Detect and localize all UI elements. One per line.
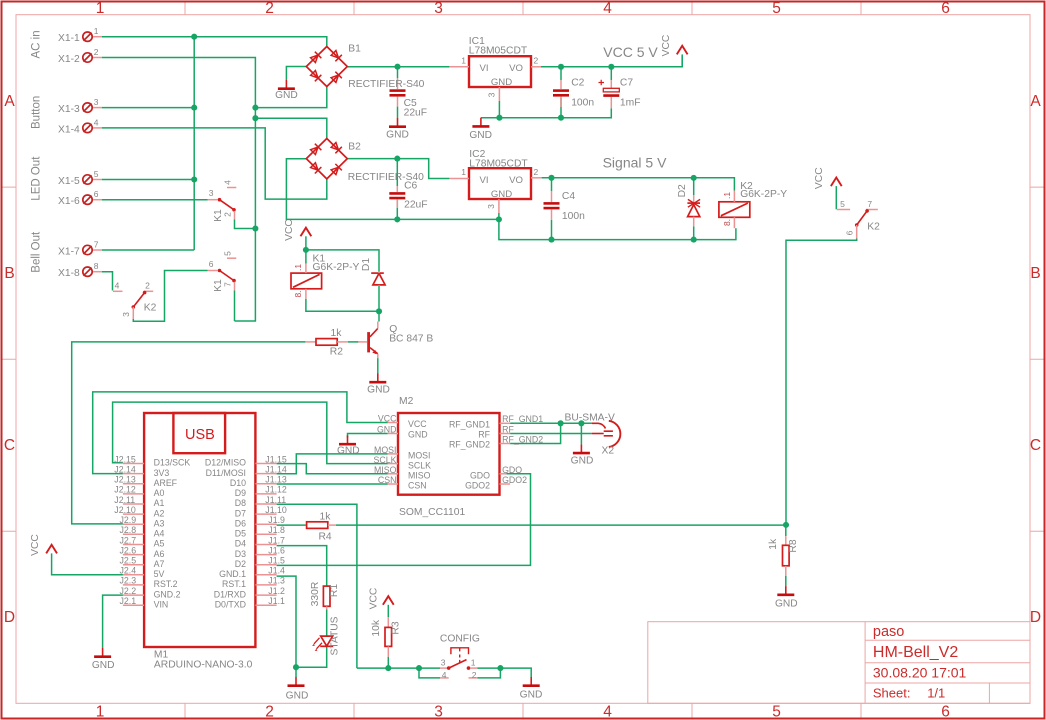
wire J1.13 CSN to module: [277, 483, 388, 485]
svg-text:GND: GND: [337, 446, 360, 457]
wire X1-2 down (net AC2): [102, 58, 255, 322]
svg-text:1: 1: [96, 0, 105, 17]
node C2 bottom: [558, 115, 564, 121]
ground B1 left: [278, 80, 295, 89]
svg-text:D12/MISO: D12/MISO: [205, 458, 246, 468]
node X1-1/AC1: [191, 34, 197, 40]
frame column ticks bottom: [185, 703, 861, 717]
wire module GND to GND symbol: [348, 434, 388, 438]
svg-text:RF_GND1: RF_GND1: [449, 420, 490, 430]
node LED/GND.1: [293, 664, 299, 670]
wire R4 line to R8 junction: [336, 524, 786, 526]
svg-text:VCC: VCC: [369, 587, 380, 609]
node VCC/K1 coil: [303, 247, 309, 253]
vcc arrow at R3: [383, 596, 394, 605]
wire B2 left to signal gnd rail: [286, 159, 499, 220]
node AC2/K1 pin2: [252, 225, 258, 231]
svg-text:GND: GND: [367, 385, 390, 396]
wire B1 right to IC1 VI: [347, 66, 449, 68]
svg-text:J1.5: J1.5: [268, 556, 285, 566]
svg-text:D0/TXD: D0/TXD: [215, 599, 246, 609]
connector X1-1: [83, 32, 92, 41]
svg-text:GDO2: GDO2: [502, 475, 527, 485]
svg-text:J1.7: J1.7: [268, 535, 285, 545]
svg-text:GND.2: GND.2: [154, 589, 181, 599]
svg-text:X1-7: X1-7: [58, 247, 80, 258]
wire K1 contact pin2 to AC2 vertical: [235, 220, 256, 229]
svg-text:LED Out: LED Out: [31, 156, 43, 201]
wire D2 top drop: [693, 178, 695, 195]
frame row ticks left: [3, 187, 17, 531]
svg-text:D2: D2: [677, 184, 688, 197]
wire K2 contact pivot to long vertical: [786, 239, 857, 525]
title block: [648, 622, 1030, 704]
svg-text:100n: 100n: [562, 211, 585, 222]
wire CONFIG bypass left pins 3-4: [419, 668, 440, 678]
ground J2.2: [94, 648, 111, 657]
svg-text:7: 7: [223, 282, 233, 287]
svg-text:2: 2: [94, 47, 99, 57]
wire emitter to GND: [377, 358, 379, 373]
svg-text:J2.12: J2.12: [114, 485, 136, 495]
svg-text:7: 7: [867, 199, 872, 209]
svg-text:VI: VI: [480, 175, 489, 186]
capacitor C5: [390, 78, 406, 106]
svg-text:2: 2: [223, 212, 233, 217]
wire J2.15 SCK over-the-top to module SCLK: [113, 402, 388, 464]
svg-text:GND: GND: [491, 189, 512, 200]
svg-text:5: 5: [772, 0, 781, 17]
svg-text:330R: 330R: [310, 582, 321, 607]
svg-text:M2: M2: [399, 396, 414, 407]
svg-text:SCLK: SCLK: [408, 460, 431, 470]
svg-text:J1.3: J1.3: [268, 576, 285, 586]
svg-text:X2: X2: [602, 446, 615, 457]
svg-text:2: 2: [145, 281, 150, 291]
svg-text:A: A: [1030, 93, 1041, 110]
svg-text:B2: B2: [348, 142, 361, 153]
svg-text:J2.7: J2.7: [120, 535, 137, 545]
frame column ticks top: [185, 3, 861, 15]
ground transistor emitter: [369, 374, 386, 383]
svg-text:4: 4: [94, 117, 99, 127]
resistor R3 vertical: [385, 617, 392, 657]
svg-text:1: 1: [471, 658, 476, 668]
wire J1.4 GND.1 down: [277, 576, 296, 677]
svg-text:D: D: [1030, 609, 1041, 626]
connector X1-6: [83, 195, 92, 204]
wire module RF_GND1 to SMA shell: [510, 422, 592, 424]
svg-text:GND: GND: [469, 130, 492, 141]
svg-text:L78M05CDT: L78M05CDT: [469, 158, 528, 169]
wire IC1 gnd rail: [481, 108, 611, 117]
svg-text:SOM_CC1101: SOM_CC1101: [399, 507, 465, 518]
wire GND.2 (J2.2) to GND: [103, 595, 123, 648]
resistor R1 vertical: [323, 586, 330, 609]
node AC2/B1: [252, 105, 258, 111]
wire D1 bottom to collector node: [378, 286, 380, 312]
svg-text:D10: D10: [230, 478, 246, 488]
svg-text:4: 4: [442, 670, 447, 680]
vcc arrow at IC1 output: [677, 46, 688, 55]
svg-text:GND: GND: [386, 130, 409, 141]
wire C4 bottom to rail: [551, 220, 553, 240]
svg-text:2: 2: [265, 0, 274, 17]
ground module M2: [339, 436, 356, 445]
node C4 bottom: [548, 237, 554, 243]
wire VCC arrow to R3 top: [387, 605, 389, 617]
svg-text:GND: GND: [92, 660, 115, 671]
svg-text:10k: 10k: [371, 619, 382, 636]
svg-text:X1-3: X1-3: [58, 104, 80, 115]
svg-text:VO: VO: [509, 175, 523, 186]
ground IC1 rail: [472, 118, 489, 127]
node C5 top: [394, 64, 400, 70]
wire C6 top drop: [396, 159, 398, 186]
svg-text:6: 6: [844, 230, 854, 235]
wire C7 top drop: [610, 67, 612, 80]
vcc arrow at K2 contact: [831, 178, 842, 187]
svg-text:X1-6: X1-6: [58, 196, 80, 207]
wire C2 top drop: [560, 67, 562, 80]
svg-text:J2.14: J2.14: [114, 464, 136, 474]
svg-text:6: 6: [94, 189, 99, 199]
node IC2 pin3: [496, 216, 502, 222]
bridge rectifier B1: [306, 47, 347, 87]
wire J1.7 D4 to R1: [277, 546, 327, 587]
svg-text:1: 1: [461, 56, 466, 66]
wire J1.15 MISO to module: [277, 464, 388, 474]
svg-text:J2.10: J2.10: [114, 505, 136, 515]
svg-text:VO: VO: [509, 63, 523, 74]
svg-text:SCLK: SCLK: [374, 455, 397, 465]
Arduino right pin names: [205, 458, 246, 610]
wire R3 bottom to CONFIG rail: [387, 657, 389, 668]
svg-text:R2: R2: [330, 347, 343, 358]
svg-text:1k: 1k: [331, 328, 343, 339]
svg-text:VIN: VIN: [154, 599, 169, 609]
svg-text:3: 3: [121, 312, 131, 317]
voltage regulator IC2: [449, 168, 541, 213]
svg-text:3: 3: [94, 97, 99, 107]
voltage regulator IC1: [449, 56, 541, 101]
resistor R8 vertical: [783, 536, 790, 576]
wire K2 contact pin3 to K1 contact pin6: [133, 271, 207, 322]
svg-text:3: 3: [441, 658, 446, 668]
wire X1-4 to B2 bottom (button net): [102, 128, 327, 199]
wire K1 contact pin7 down: [234, 291, 236, 322]
wire R2 right to base: [348, 341, 359, 343]
svg-text:GDO2: GDO2: [465, 481, 490, 491]
wire B1 left to GND: [286, 67, 306, 81]
wire IC1 pin3 to rail: [498, 101, 500, 118]
node C4 top: [548, 175, 554, 181]
svg-text:X1-2: X1-2: [58, 54, 80, 65]
svg-text:MISO: MISO: [374, 465, 397, 475]
wire X1-1 to B1 top (net AC1): [102, 37, 327, 47]
wire module RF_GND2 up to RF_GND1: [510, 423, 560, 443]
wire X1-8 to K2 contact pin4: [102, 272, 113, 291]
svg-text:J2.9: J2.9: [120, 515, 137, 525]
wire IC1 VO rail to VCC arrow: [541, 56, 682, 67]
relay contact K2 left (pins 3/2/4): [113, 291, 153, 319]
capacitor C7 polarized: [599, 80, 620, 109]
relay coil K2: [719, 191, 750, 229]
svg-text:3: 3: [434, 0, 443, 17]
svg-text:2: 2: [265, 704, 274, 720]
svg-text:J2.1: J2.1: [120, 596, 137, 606]
wire C4 top drop: [551, 178, 553, 191]
wire AC2 to B1 bottom: [255, 87, 326, 108]
svg-text:X1-4: X1-4: [58, 124, 80, 135]
svg-text:R1: R1: [329, 584, 340, 597]
svg-text:6: 6: [941, 704, 950, 720]
svg-text:VCC 5 V: VCC 5 V: [603, 44, 658, 60]
wire X1-5 to AC1 vertical: [102, 179, 194, 181]
svg-text:paso: paso: [873, 624, 904, 640]
wire VCC arrow to 5V (J2.4): [52, 553, 123, 574]
wire J1.9 D6 to R4: [277, 524, 306, 526]
svg-text:5: 5: [772, 704, 781, 720]
svg-text:D7: D7: [235, 508, 246, 518]
svg-text:J2.13: J2.13: [114, 475, 136, 485]
svg-text:STATUS: STATUS: [330, 616, 341, 655]
node RF_GND1/RF_GND2: [558, 420, 564, 426]
svg-text:R8: R8: [788, 539, 799, 552]
svg-text:MOSI: MOSI: [374, 445, 396, 455]
PARTS: [46, 32, 878, 686]
svg-text:4: 4: [603, 704, 612, 720]
svg-text:4: 4: [115, 281, 120, 291]
svg-text:1/1: 1/1: [927, 686, 945, 701]
svg-text:.1: .1: [293, 264, 303, 271]
svg-text:Bell Out: Bell Out: [31, 231, 43, 273]
svg-text:J1.10: J1.10: [265, 505, 287, 515]
wire J1.11 D8 to CONFIG rail: [277, 504, 357, 668]
svg-text:J1.14: J1.14: [265, 464, 287, 474]
svg-text:6: 6: [941, 0, 950, 17]
svg-text:RF_GND2: RF_GND2: [449, 440, 490, 450]
node C6 bottom: [394, 216, 400, 222]
svg-text:J2.4: J2.4: [120, 566, 137, 576]
connector X1-7: [83, 245, 92, 254]
svg-text:8: 8: [94, 261, 99, 271]
svg-text:BU-SMA-V: BU-SMA-V: [565, 413, 615, 424]
RF module M2 SOM_CC1101: [388, 413, 510, 495]
Arduino J1 pin labels: [265, 454, 287, 606]
svg-text:K1: K1: [213, 209, 224, 222]
wire K1 coil node to D1 top: [306, 250, 379, 272]
svg-text:X1-8: X1-8: [58, 268, 80, 279]
wire R1 to LED: [326, 609, 328, 636]
svg-text:4: 4: [603, 0, 612, 17]
node R4/R8/K2: [783, 522, 789, 528]
ground R8: [777, 586, 794, 595]
svg-text:C: C: [1030, 437, 1041, 454]
capacitor C4: [544, 191, 560, 220]
wire CONFIG rail left: [357, 667, 440, 669]
svg-text:R3: R3: [391, 621, 402, 634]
svg-text:D8: D8: [235, 498, 246, 508]
svg-text:A3: A3: [154, 518, 165, 528]
svg-text:RF: RF: [502, 424, 514, 434]
svg-text:GND: GND: [775, 599, 798, 610]
svg-text:J2.15: J2.15: [114, 454, 136, 464]
svg-text:X1-1: X1-1: [58, 33, 80, 44]
svg-text:3: 3: [486, 204, 496, 209]
svg-text:5V: 5V: [154, 569, 165, 579]
svg-text:8.: 8.: [722, 219, 732, 226]
svg-text:D5: D5: [235, 529, 246, 539]
svg-text:2: 2: [472, 670, 477, 680]
svg-text:GND: GND: [491, 77, 512, 88]
svg-text:Signal 5 V: Signal 5 V: [603, 155, 667, 171]
svg-text:C7: C7: [620, 78, 633, 89]
svg-text:K2: K2: [867, 222, 880, 233]
wire R8 top: [785, 525, 787, 536]
svg-text:GND: GND: [571, 455, 594, 466]
svg-text:1k: 1k: [768, 538, 779, 550]
svg-text:1k: 1k: [320, 512, 332, 523]
transistor Q BC847B: [358, 322, 377, 359]
svg-text:RF_GND1: RF_GND1: [502, 414, 543, 424]
node C6 top: [394, 156, 400, 162]
svg-text:MOSI: MOSI: [408, 450, 430, 460]
wire C5 bottom to GND: [397, 107, 399, 118]
svg-text:1: 1: [94, 26, 99, 36]
wire collector node to transistor: [378, 311, 380, 321]
wire R2 left to Arduino A3 (J2.9): [72, 342, 306, 524]
svg-text:A2: A2: [154, 508, 165, 518]
svg-text:J2.8: J2.8: [120, 525, 137, 535]
capacitor C6: [389, 186, 405, 208]
svg-text:G6K-2P-Y: G6K-2P-Y: [740, 189, 787, 200]
svg-text:VCC: VCC: [661, 34, 672, 56]
svg-text:GND: GND: [408, 429, 428, 439]
svg-text:B1: B1: [348, 44, 361, 55]
connector X1-4: [83, 123, 92, 132]
svg-text:J2.3: J2.3: [120, 576, 137, 586]
wire SMA gnd drop: [580, 423, 582, 444]
svg-text:C: C: [4, 437, 15, 454]
wire J1.14 MOSI to module: [277, 454, 388, 474]
wire X1-7 to AC1 vertical: [102, 249, 194, 251]
svg-text:A1: A1: [154, 498, 165, 508]
svg-text:HM-Bell_V2: HM-Bell_V2: [873, 644, 958, 661]
node D2 top: [691, 175, 697, 181]
svg-text:RECTIFIER-S40: RECTIFIER-S40: [348, 79, 424, 90]
connector X1-2: [83, 53, 92, 62]
wire K1 coil pin8 to collector node: [306, 299, 379, 312]
svg-text:J1.4: J1.4: [268, 566, 285, 576]
svg-text:GND: GND: [286, 691, 309, 702]
svg-text:X1-5: X1-5: [58, 176, 80, 187]
svg-text:ARDUINO-NANO-3.0: ARDUINO-NANO-3.0: [154, 660, 253, 671]
svg-text:RST.1: RST.1: [222, 579, 246, 589]
wire CONFIG bypass right pins 1-2: [477, 668, 500, 678]
svg-text:3: 3: [209, 188, 214, 198]
svg-text:B: B: [4, 265, 14, 282]
svg-text:1: 1: [461, 167, 466, 177]
wire vertical common AC1 X1-1/X1-3/X1-5/X1-7: [193, 37, 195, 250]
node D2 bottom: [691, 237, 697, 243]
relay contact K1 lower (pins 6/7/5): [208, 258, 237, 290]
ground SMA: [573, 444, 590, 453]
Arduino left pin names: [154, 458, 191, 610]
svg-text:3: 3: [486, 92, 496, 97]
wire VCC arrow to K1 coil node: [305, 236, 307, 263]
svg-text:A7: A7: [154, 559, 165, 569]
svg-text:GND: GND: [275, 90, 298, 101]
node RF_GND1/GND: [578, 420, 584, 426]
svg-text:6: 6: [209, 259, 214, 269]
svg-text:BC 847 B: BC 847 B: [389, 334, 433, 345]
svg-text:D9: D9: [235, 488, 246, 498]
wire X1-3 to AC1 vertical: [102, 107, 194, 109]
wire B2 right to IC2 VI: [347, 159, 449, 179]
svg-text:AREF: AREF: [154, 478, 178, 488]
svg-text:Sheet:: Sheet:: [873, 686, 911, 701]
svg-text:D4: D4: [235, 539, 246, 549]
svg-text:J1.8: J1.8: [268, 525, 285, 535]
wire C6 bottom to rail: [396, 200, 398, 220]
svg-text:A0: A0: [154, 488, 165, 498]
svg-text:D1/RXD: D1/RXD: [214, 589, 246, 599]
node CONFIG bypass left: [416, 665, 422, 671]
svg-text:D1: D1: [361, 258, 372, 271]
svg-text:USB: USB: [185, 427, 215, 443]
wire 3V3 (J2.14) to module VCC: [93, 392, 388, 474]
bridge rectifier B2: [306, 139, 347, 179]
svg-text:C6: C6: [404, 181, 417, 192]
svg-text:R4: R4: [319, 532, 332, 543]
svg-text:D13/SCK: D13/SCK: [154, 458, 191, 468]
svg-text:Button: Button: [31, 96, 43, 129]
resistor R2: [305, 339, 347, 346]
svg-text:D6: D6: [235, 518, 246, 528]
node AC2/B2: [252, 115, 258, 121]
svg-text:A: A: [4, 93, 15, 110]
svg-text:AC in: AC in: [31, 30, 43, 58]
wire C2 bottom to rail: [560, 98, 562, 118]
svg-text:A6: A6: [154, 549, 165, 559]
svg-text:D: D: [4, 609, 15, 626]
svg-text:7: 7: [94, 240, 99, 250]
svg-text:CSN: CSN: [408, 481, 427, 491]
node X1-3/AC1: [191, 105, 197, 111]
status LED: [312, 636, 333, 651]
svg-text:4: 4: [222, 180, 232, 185]
relay contact K1 upper (pins 3/2/4): [208, 188, 237, 220]
svg-text:J1.1: J1.1: [268, 596, 285, 606]
svg-text:J2.5: J2.5: [120, 556, 137, 566]
svg-text:2: 2: [534, 167, 539, 177]
svg-text:C4: C4: [562, 191, 575, 202]
svg-text:VCC: VCC: [378, 414, 397, 424]
CONFIG switch: [440, 648, 477, 678]
svg-text:GDO: GDO: [470, 471, 490, 481]
svg-text:J1.9: J1.9: [268, 515, 285, 525]
wire IC2 pin3 to rails: [499, 213, 736, 240]
wire status LED bottom to GND node: [296, 646, 327, 667]
svg-text:100n: 100n: [571, 98, 594, 109]
svg-text:22uF: 22uF: [404, 107, 427, 118]
svg-text:J2.2: J2.2: [120, 586, 137, 596]
svg-text:CSN: CSN: [378, 475, 397, 485]
node CONFIG bypass right: [497, 665, 503, 671]
wire IC2 VO signal rail: [542, 178, 735, 191]
GND texts: [92, 90, 798, 701]
